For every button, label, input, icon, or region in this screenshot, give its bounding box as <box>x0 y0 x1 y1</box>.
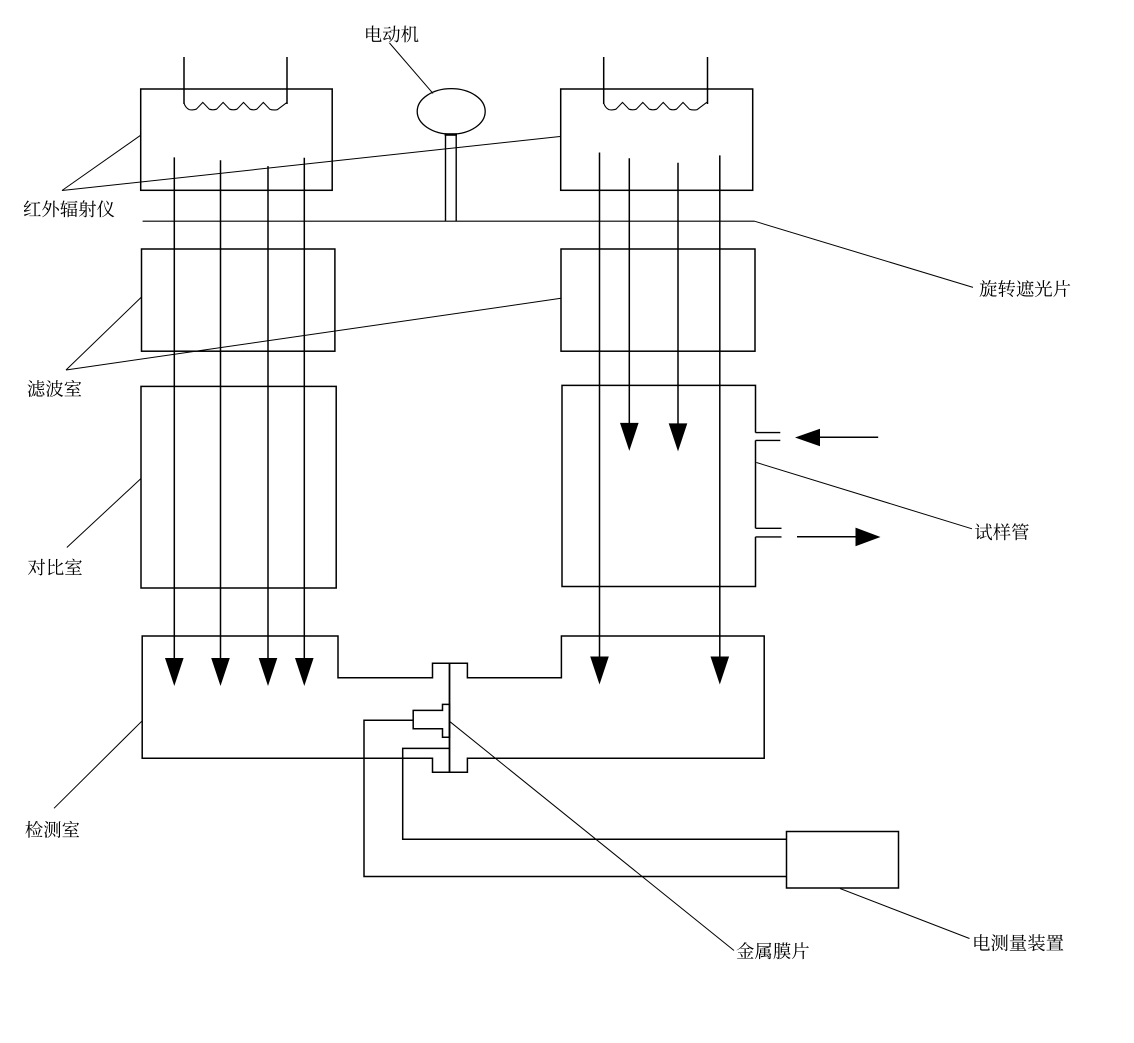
filament lead right-2 <box>707 57 709 104</box>
IR source housing right <box>561 89 753 190</box>
IR beam left-1 line <box>173 157 175 660</box>
gas outlet arrowhead <box>856 528 881 547</box>
IR beam right-1 arrowhead <box>590 657 609 685</box>
label 电动机 (motor) <box>366 25 418 42</box>
electrical measuring device (电测量装置) box <box>787 832 899 889</box>
IR beam left-4 arrowhead <box>295 658 314 686</box>
heater filament right <box>604 102 707 110</box>
leader 试样管 <box>756 463 972 529</box>
leader 旋转遮光片 <box>755 221 974 287</box>
metal diaphragm (金属膜片) membrane <box>449 663 451 772</box>
label 金属膜片 (metal diaphragm) <box>737 942 809 959</box>
label 对比室 (reference chamber) <box>28 559 82 576</box>
IR source housing left <box>141 89 333 190</box>
membrane wire B <box>403 748 787 839</box>
label 红外辐射仪 (IR radiator) <box>24 200 115 217</box>
filament lead left-1 <box>183 57 185 104</box>
leader 滤波室 to right filter <box>66 298 561 370</box>
label 试样管 (sample tube) <box>975 523 1029 540</box>
IR beam left-2 line <box>220 160 222 660</box>
inlet port upper wall <box>756 432 781 434</box>
IR beam left-4 line <box>303 158 305 660</box>
IR beam right-2 arrowhead <box>620 423 639 451</box>
leader 电测量装置 <box>840 889 970 939</box>
reference chamber (对比室) <box>141 386 336 588</box>
electrode wire A <box>364 720 787 876</box>
rotating shutter disc (旋转遮光片) <box>143 220 755 222</box>
leader 滤波室 to left filter <box>66 297 142 370</box>
leader 电动机 <box>390 43 434 93</box>
filter chamber left (滤波室) <box>142 249 335 351</box>
motor M (电动机) body <box>417 89 485 135</box>
IR beam right-3 line <box>677 163 679 424</box>
inlet port lower wall <box>756 439 781 441</box>
label 电测量装置 (measuring device) <box>974 934 1063 951</box>
leader 金属膜片 <box>450 721 735 950</box>
label 滤波室 (filter chamber) <box>28 380 82 397</box>
IR beam right-3 arrowhead <box>669 423 688 451</box>
gas inlet arrow shaft <box>819 436 878 438</box>
heater filament left <box>184 102 287 110</box>
detection chamber (检测室) outline <box>142 636 764 772</box>
IR beam left-1 arrowhead <box>165 658 184 686</box>
gas inlet arrowhead <box>795 429 820 446</box>
IR beam left-3 arrowhead <box>259 658 278 686</box>
filter chamber right (滤波室) <box>561 249 755 351</box>
IR beam left-2 arrowhead <box>211 658 230 686</box>
motor shaft left line <box>445 134 447 221</box>
label 旋转遮光片 (rotating shutter) <box>980 280 1071 297</box>
outlet port upper wall <box>756 527 782 529</box>
label 检测室 (detection chamber) <box>25 821 79 838</box>
IR beam right-4 line <box>719 155 721 658</box>
outlet port lower wall <box>756 536 782 538</box>
fixed electrode plug <box>413 704 449 737</box>
filament lead left-2 <box>286 57 288 104</box>
IR beam left-3 line <box>267 166 269 660</box>
motor shaft coupling bar <box>445 133 457 136</box>
IR beam right-1 line <box>599 153 601 659</box>
gas outlet arrow shaft <box>797 536 857 538</box>
motor shaft right line <box>455 134 457 221</box>
leader 红外辐射仪 to right source <box>62 137 560 191</box>
IR beam right-2 line <box>628 158 630 424</box>
filament lead right-1 <box>603 57 605 104</box>
sample chamber (试样管) walls <box>562 385 756 586</box>
IR beam right-4 arrowhead <box>711 657 730 685</box>
leader 检测室 <box>54 721 142 809</box>
leader 红外辐射仪 to left source <box>62 135 141 190</box>
leader 对比室 <box>67 479 141 548</box>
